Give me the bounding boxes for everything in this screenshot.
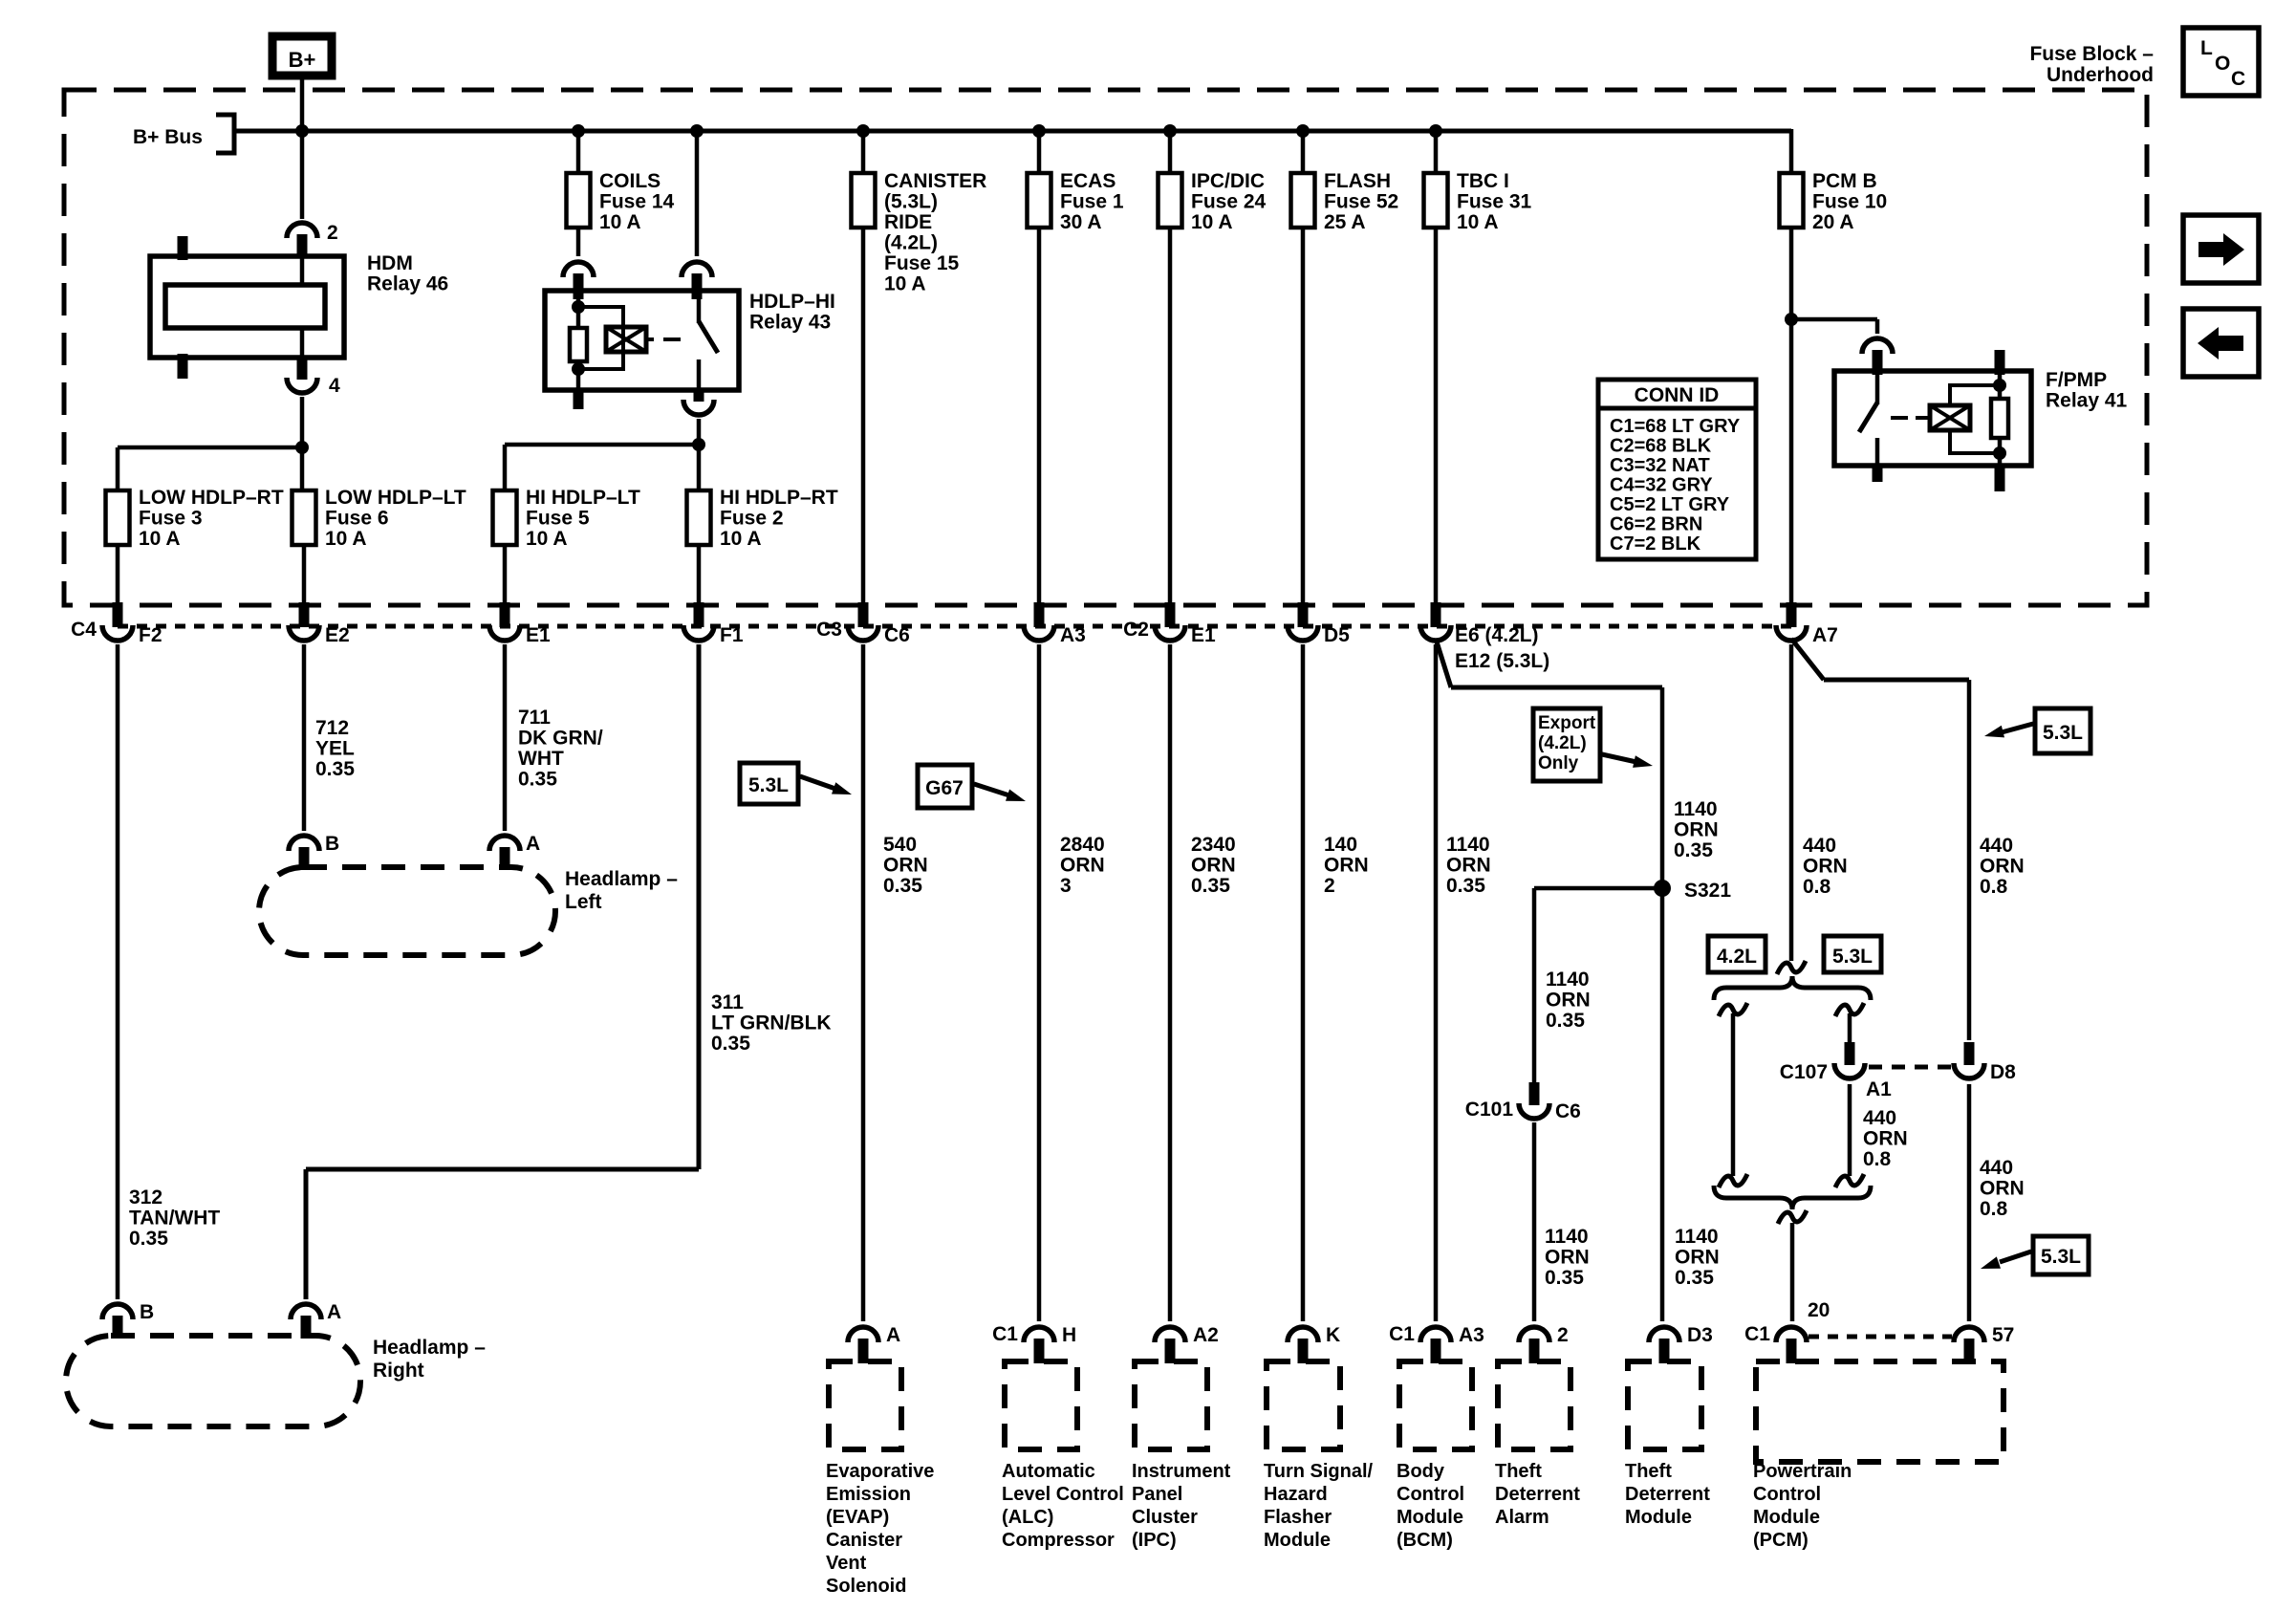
svg-text:ORN: ORN bbox=[1863, 1128, 1908, 1150]
svg-text:C3: C3 bbox=[816, 619, 842, 641]
svg-text:IPC/DIC: IPC/DIC bbox=[1191, 170, 1265, 192]
connector pin 4 of HDM relay bbox=[287, 375, 340, 397]
svg-text:(4.2L): (4.2L) bbox=[884, 232, 938, 254]
svg-text:Alarm: Alarm bbox=[1495, 1507, 1549, 1528]
wire B+ down to bus bbox=[300, 79, 305, 131]
svg-text:G67: G67 bbox=[925, 777, 964, 799]
wire F2 down to headlamp right B bbox=[116, 644, 120, 1299]
fuse ECAS bbox=[1028, 170, 1124, 233]
connector pin switch of HDLP-HI relay bbox=[682, 262, 712, 299]
svg-text:WHT: WHT bbox=[518, 748, 564, 770]
module connector at x=1741 bbox=[1649, 1324, 1713, 1363]
svg-text:10 A: 10 A bbox=[139, 528, 181, 550]
wire fuse2 to connector F1 bbox=[697, 545, 702, 604]
svg-text:Left: Left bbox=[565, 891, 602, 913]
module box Theft Deterrent Module bbox=[1628, 1361, 1701, 1449]
svg-text:PCM B: PCM B bbox=[1812, 170, 1877, 192]
svg-text:Canister: Canister bbox=[826, 1530, 902, 1551]
svg-text:A7: A7 bbox=[1812, 624, 1838, 646]
svg-text:Level Control: Level Control bbox=[1002, 1484, 1124, 1505]
svg-text:ECAS: ECAS bbox=[1060, 170, 1116, 192]
module box Evaporative Emission (EVAP) Canister Vent Solenoid bbox=[829, 1361, 901, 1449]
svg-text:C2: C2 bbox=[1123, 619, 1149, 641]
svg-text:A: A bbox=[327, 1301, 341, 1323]
svg-text:0.35: 0.35 bbox=[1674, 839, 1713, 861]
wire ECAS fuse down to connector row bbox=[1037, 226, 1042, 604]
svg-text:E1: E1 bbox=[526, 624, 551, 646]
module connector at x=1502 bbox=[1389, 1323, 1484, 1363]
svg-text:RIDE: RIDE bbox=[884, 211, 932, 233]
svg-text:440: 440 bbox=[1803, 835, 1836, 857]
svg-text:Vent: Vent bbox=[826, 1553, 867, 1574]
wire fuse5 to connector E1 bbox=[503, 545, 508, 604]
svg-text:57: 57 bbox=[1992, 1324, 2014, 1346]
wire F1 down and jog left (311 LT GRN/BLK) bbox=[697, 644, 702, 1169]
wire fuse3 to connector C4 F2 bbox=[116, 545, 120, 604]
svg-text:E1: E1 bbox=[1191, 624, 1216, 646]
svg-text:F/PMP: F/PMP bbox=[2046, 369, 2107, 391]
svg-text:Turn Signal/: Turn Signal/ bbox=[1264, 1461, 1374, 1482]
svg-text:ORN: ORN bbox=[1980, 856, 2025, 878]
wire branch to LOW HDLP-RT fuse bbox=[118, 446, 302, 450]
svg-text:LOW HDLP–LT: LOW HDLP–LT bbox=[325, 487, 466, 509]
module connector at x=1363 bbox=[1288, 1324, 1340, 1363]
fuse block underhood dashed border bbox=[64, 90, 2147, 605]
connector row pin at x=903 bbox=[816, 602, 910, 646]
connector row pin at x=123 bbox=[71, 602, 162, 646]
connector of HDLP-HI relay output bbox=[683, 400, 714, 415]
wire E2 down to headlamp left B bbox=[302, 644, 307, 831]
wire A3 down to ALC compressor bbox=[1037, 644, 1042, 1321]
svg-text:2: 2 bbox=[1557, 1324, 1569, 1346]
svg-text:4.2L: 4.2L bbox=[1717, 946, 1757, 968]
wire to PCM pin 20 bbox=[1790, 1223, 1795, 1321]
wire D5 down to flasher module bbox=[1301, 644, 1306, 1321]
5.3L tag bottom right bbox=[2033, 1236, 2089, 1274]
wire COILS fuse to relay coil pin bbox=[576, 226, 581, 256]
svg-text:B: B bbox=[325, 833, 339, 855]
svg-text:A: A bbox=[886, 1324, 900, 1346]
svg-text:140: 140 bbox=[1324, 834, 1357, 856]
dashed link C107 to D8 bbox=[1869, 1065, 1952, 1070]
brace top bbox=[1714, 976, 1871, 1000]
svg-text:2: 2 bbox=[1324, 875, 1335, 897]
svg-text:ORN: ORN bbox=[1980, 1178, 2025, 1200]
svg-text:10 A: 10 A bbox=[884, 273, 926, 295]
wire bus to CANISTER fuse bbox=[861, 131, 866, 173]
svg-text:Instrument: Instrument bbox=[1132, 1461, 1231, 1482]
wire A7 down (440 ORN 0.8) bbox=[1789, 644, 1794, 961]
connector row pin at x=1874 bbox=[1776, 602, 1838, 646]
svg-text:C6: C6 bbox=[884, 624, 910, 646]
svg-text:ORN: ORN bbox=[883, 855, 928, 877]
svg-text:1140: 1140 bbox=[1446, 834, 1490, 856]
svg-text:(EVAP): (EVAP) bbox=[826, 1507, 889, 1528]
svg-text:0.35: 0.35 bbox=[883, 875, 922, 897]
wire HDM pin4 down to split bbox=[300, 397, 305, 490]
svg-text:D5: D5 bbox=[1324, 624, 1350, 646]
svg-text:Powertrain: Powertrain bbox=[1753, 1461, 1852, 1482]
wire C6 down to EVAP solenoid bbox=[861, 644, 866, 1321]
svg-text:312: 312 bbox=[129, 1186, 162, 1208]
svg-text:Fuse 24: Fuse 24 bbox=[1191, 191, 1267, 213]
svg-text:K: K bbox=[1326, 1324, 1340, 1346]
svg-text:ORN: ORN bbox=[1675, 1247, 1720, 1269]
svg-text:20: 20 bbox=[1808, 1299, 1830, 1321]
svg-text:ORN: ORN bbox=[1674, 819, 1719, 841]
svg-text:10 A: 10 A bbox=[325, 528, 367, 550]
connector pin switch of F/PMP relay bbox=[1862, 338, 1893, 375]
svg-text:Evaporative: Evaporative bbox=[826, 1461, 934, 1482]
svg-text:A3: A3 bbox=[1459, 1324, 1484, 1346]
svg-text:ORN: ORN bbox=[1060, 855, 1105, 877]
svg-text:HDM: HDM bbox=[367, 252, 413, 274]
svg-text:C5=2 LT GRY: C5=2 LT GRY bbox=[1610, 494, 1730, 515]
svg-text:Relay 43: Relay 43 bbox=[749, 312, 831, 334]
F/PMP Relay 41 bbox=[1834, 350, 2128, 491]
svg-text:C6: C6 bbox=[1555, 1100, 1581, 1122]
svg-text:10 A: 10 A bbox=[599, 211, 641, 233]
connector B headlamp left bbox=[289, 833, 339, 870]
HDM Relay 46 bbox=[150, 236, 448, 380]
connector pin coil of HDLP-HI relay bbox=[563, 262, 594, 299]
B+ bus horizontal wire bbox=[233, 129, 1791, 134]
svg-text:ORN: ORN bbox=[1545, 1247, 1590, 1269]
svg-text:F1: F1 bbox=[720, 624, 744, 646]
4.2L tag bbox=[1708, 936, 1765, 972]
svg-text:C3=32 NAT: C3=32 NAT bbox=[1610, 455, 1710, 476]
5.3L arrow to 440 wire bbox=[2002, 724, 2033, 732]
svg-text:Module: Module bbox=[1264, 1530, 1331, 1551]
svg-text:CANISTER: CANISTER bbox=[884, 170, 986, 192]
module connector at x=1224 bbox=[1155, 1324, 1219, 1363]
svg-text:D8: D8 bbox=[1990, 1061, 2016, 1083]
svg-text:440: 440 bbox=[1863, 1107, 1896, 1129]
svg-text:Fuse 15: Fuse 15 bbox=[884, 252, 960, 274]
svg-text:2: 2 bbox=[327, 222, 338, 244]
svg-text:Module: Module bbox=[1397, 1507, 1463, 1528]
svg-text:0.35: 0.35 bbox=[1675, 1267, 1714, 1289]
svg-text:1140: 1140 bbox=[1546, 969, 1590, 991]
svg-text:F2: F2 bbox=[139, 624, 162, 646]
fuse FLASH bbox=[1291, 170, 1399, 233]
svg-text:E2: E2 bbox=[325, 624, 350, 646]
svg-text:0.35: 0.35 bbox=[1191, 875, 1230, 897]
wire S321 branch left to C101 bbox=[1534, 886, 1662, 891]
B+ terminal bbox=[272, 36, 332, 76]
wire D8 down to PCM pin 57 bbox=[1967, 1084, 1972, 1321]
fuse HI HDLP-RT Fuse 2 10A bbox=[687, 487, 838, 550]
G67 arrow to 2840 wire bbox=[974, 784, 1009, 795]
svg-text:HDLP–HI: HDLP–HI bbox=[749, 291, 835, 313]
connector D8 bbox=[1954, 1042, 2016, 1083]
module box Body Control Module (BCM) bbox=[1399, 1361, 1472, 1449]
wire bus corner down to PCM B fuse bbox=[1789, 129, 1794, 173]
svg-text:Control: Control bbox=[1397, 1484, 1464, 1505]
5.3L tag bbox=[1824, 936, 1881, 972]
fuse TBC I bbox=[1424, 170, 1532, 233]
svg-text:0.8: 0.8 bbox=[1980, 876, 2008, 898]
svg-text:COILS: COILS bbox=[599, 170, 661, 192]
module connector at x=1874 bbox=[1744, 1299, 1830, 1363]
svg-text:Fuse 2: Fuse 2 bbox=[720, 508, 784, 530]
svg-text:10 A: 10 A bbox=[1457, 211, 1499, 233]
svg-text:ORN: ORN bbox=[1546, 990, 1591, 1012]
svg-text:B+: B+ bbox=[289, 48, 316, 72]
svg-text:Fuse 1: Fuse 1 bbox=[1060, 191, 1124, 213]
svg-text:440: 440 bbox=[1980, 1157, 2013, 1179]
connector row pin at x=1502 bbox=[1420, 602, 1451, 641]
svg-text:Module: Module bbox=[1625, 1507, 1692, 1528]
svg-text:2340: 2340 bbox=[1191, 834, 1236, 856]
wire bus to TBC I fuse bbox=[1434, 131, 1439, 173]
svg-text:Compressor: Compressor bbox=[1002, 1530, 1115, 1551]
fuse LOW HDLP-LT Fuse 6 10A bbox=[292, 487, 466, 550]
svg-text:H: H bbox=[1062, 1324, 1076, 1346]
svg-text:712: 712 bbox=[315, 717, 349, 739]
svg-text:Solenoid: Solenoid bbox=[826, 1576, 906, 1597]
svg-text:A3: A3 bbox=[1060, 624, 1086, 646]
connector C101 C6 bbox=[1465, 1082, 1581, 1122]
5.3L tag left bbox=[740, 763, 798, 804]
svg-text:LOW HDLP–RT: LOW HDLP–RT bbox=[139, 487, 284, 509]
dotted link pin20 to pin57 bbox=[1809, 1335, 1952, 1339]
4.2L option wire bbox=[1719, 1003, 1747, 1016]
svg-text:Fuse 5: Fuse 5 bbox=[526, 508, 590, 530]
svg-text:4: 4 bbox=[329, 375, 340, 397]
arrow box pointing left bbox=[2183, 309, 2259, 377]
connector B headlamp right bbox=[102, 1301, 154, 1339]
svg-text:Relay 41: Relay 41 bbox=[2046, 390, 2128, 412]
fuse CANISTER bbox=[852, 170, 987, 295]
svg-text:0.35: 0.35 bbox=[1446, 875, 1485, 897]
module box Automatic Level Control (ALC) Compressor bbox=[1005, 1361, 1077, 1449]
bus junction nodes bbox=[295, 124, 309, 138]
wire branch to F/PMP relay bbox=[1791, 317, 1877, 322]
wire IPC/DIC fuse down to connector row bbox=[1168, 226, 1173, 604]
svg-text:5.3L: 5.3L bbox=[2043, 722, 2083, 744]
svg-text:(IPC): (IPC) bbox=[1132, 1530, 1177, 1551]
svg-text:Body: Body bbox=[1397, 1461, 1445, 1482]
svg-text:TAN/WHT: TAN/WHT bbox=[129, 1208, 220, 1230]
svg-text:30 A: 30 A bbox=[1060, 211, 1102, 233]
wire CANISTER fuse down to connector row bbox=[861, 226, 866, 604]
connector row pin at x=528 bbox=[489, 602, 551, 646]
Export arrow bbox=[1602, 754, 1636, 762]
svg-text:0.35: 0.35 bbox=[129, 1228, 168, 1250]
svg-text:0.35: 0.35 bbox=[1545, 1267, 1584, 1289]
svg-text:TBC I: TBC I bbox=[1457, 170, 1509, 192]
svg-text:0.35: 0.35 bbox=[1546, 1010, 1585, 1032]
svg-text:Theft: Theft bbox=[1495, 1461, 1542, 1482]
G67 tag bbox=[918, 765, 972, 808]
wire TBC I fuse down to connector row bbox=[1434, 226, 1439, 604]
wire fuse6 to connector E2 bbox=[302, 545, 307, 604]
svg-text:Export: Export bbox=[1538, 713, 1596, 733]
svg-text:Underhood: Underhood bbox=[2047, 64, 2154, 86]
Headlamp Left box bbox=[259, 867, 678, 955]
svg-text:(ALC): (ALC) bbox=[1002, 1507, 1053, 1528]
svg-text:O: O bbox=[2215, 53, 2230, 75]
module connector at x=1605 bbox=[1519, 1324, 1569, 1363]
svg-text:10 A: 10 A bbox=[720, 528, 762, 550]
wire branch to HI HDLP-LT fuse bbox=[505, 443, 699, 447]
svg-text:B+ Bus: B+ Bus bbox=[133, 126, 203, 148]
fuse LOW HDLP-RT Fuse 3 10A bbox=[106, 487, 284, 550]
svg-text:Deterrent: Deterrent bbox=[1495, 1484, 1580, 1505]
svg-text:ORN: ORN bbox=[1191, 855, 1236, 877]
connector pin 2 of HDM relay bbox=[287, 222, 338, 258]
module connector at x=2060 bbox=[1954, 1324, 2014, 1363]
svg-text:5.3L: 5.3L bbox=[1832, 946, 1873, 968]
svg-text:CONN ID: CONN ID bbox=[1635, 384, 1720, 406]
svg-text:C101: C101 bbox=[1465, 1099, 1514, 1121]
wire bus to ECAS fuse bbox=[1037, 131, 1042, 173]
svg-text:5.3L: 5.3L bbox=[748, 774, 789, 796]
svg-text:S321: S321 bbox=[1684, 880, 1731, 902]
svg-text:10 A: 10 A bbox=[1191, 211, 1233, 233]
wire C101 down to theft deterrent alarm bbox=[1532, 1122, 1537, 1321]
svg-text:Fuse 52: Fuse 52 bbox=[1324, 191, 1398, 213]
5.3L option wire upper bbox=[1835, 1003, 1864, 1016]
LOC legend box bbox=[2183, 28, 2259, 96]
svg-text:Module: Module bbox=[1753, 1507, 1820, 1528]
module box Theft Deterrent Alarm bbox=[1498, 1361, 1570, 1449]
svg-text:25 A: 25 A bbox=[1324, 211, 1366, 233]
svg-text:540: 540 bbox=[883, 834, 917, 856]
wire E6/E12 diagonal branch bbox=[1436, 639, 1451, 687]
connector row pin at x=1087 bbox=[1024, 602, 1086, 646]
B+ Bus bracket and label bbox=[216, 115, 234, 153]
svg-text:C4=32 GRY: C4=32 GRY bbox=[1610, 475, 1713, 496]
svg-text:HI HDLP–LT: HI HDLP–LT bbox=[526, 487, 640, 509]
wire E1 down to headlamp left A bbox=[503, 644, 508, 831]
svg-text:1140: 1140 bbox=[1675, 1226, 1719, 1248]
fuse COILS Fuse 14 10A bbox=[567, 170, 675, 233]
svg-text:1140: 1140 bbox=[1674, 798, 1718, 820]
svg-text:Fuse 3: Fuse 3 bbox=[139, 508, 203, 530]
wire bus to IPC/DIC fuse bbox=[1168, 131, 1173, 173]
svg-text:ORN: ORN bbox=[1324, 855, 1369, 877]
svg-text:Panel: Panel bbox=[1132, 1484, 1182, 1505]
svg-text:C4: C4 bbox=[71, 619, 97, 641]
svg-text:Right: Right bbox=[373, 1360, 424, 1382]
5.3L arrow to 540 wire bbox=[800, 776, 835, 789]
svg-text:(4.2L): (4.2L) bbox=[1538, 733, 1587, 753]
svg-text:10 A: 10 A bbox=[526, 528, 568, 550]
break below brace bbox=[1778, 1210, 1807, 1224]
svg-text:C: C bbox=[2231, 68, 2245, 90]
svg-text:Fuse 14: Fuse 14 bbox=[599, 191, 675, 213]
svg-text:Headlamp –: Headlamp – bbox=[565, 868, 678, 890]
svg-text:C7=2 BLK: C7=2 BLK bbox=[1610, 533, 1701, 555]
svg-text:(5.3L): (5.3L) bbox=[884, 191, 938, 213]
fuse HI HDLP-LT Fuse 5 10A bbox=[493, 487, 640, 550]
svg-text:0.8: 0.8 bbox=[1980, 1198, 2008, 1220]
svg-text:0.8: 0.8 bbox=[1863, 1148, 1892, 1170]
HDLP-HI Relay 43 bbox=[545, 291, 835, 409]
svg-text:C1: C1 bbox=[992, 1323, 1018, 1345]
svg-text:Control: Control bbox=[1753, 1484, 1821, 1505]
brace bottom bbox=[1714, 1186, 1871, 1209]
svg-text:A1: A1 bbox=[1866, 1078, 1892, 1100]
svg-text:Fuse Block –: Fuse Block – bbox=[2029, 43, 2154, 65]
module box Powertrain Control Module (PCM) bbox=[1756, 1361, 2004, 1462]
svg-text:DK GRN/: DK GRN/ bbox=[518, 728, 603, 750]
5.3L option wire lower bbox=[1848, 1084, 1852, 1176]
module connector at x=1087 bbox=[992, 1323, 1076, 1363]
svg-text:Flasher: Flasher bbox=[1264, 1507, 1332, 1528]
5.3L tag top right bbox=[2035, 708, 2090, 753]
svg-text:E6 (4.2L): E6 (4.2L) bbox=[1455, 624, 1539, 646]
svg-text:Fuse 31: Fuse 31 bbox=[1457, 191, 1532, 213]
engine option break on A7 wire bbox=[1777, 961, 1806, 974]
svg-text:A2: A2 bbox=[1193, 1324, 1219, 1346]
svg-text:311: 311 bbox=[711, 991, 744, 1013]
connector row pin at x=318 bbox=[289, 602, 350, 646]
svg-text:Automatic: Automatic bbox=[1002, 1461, 1095, 1482]
svg-text:Fuse 6: Fuse 6 bbox=[325, 508, 389, 530]
svg-text:Cluster: Cluster bbox=[1132, 1507, 1198, 1528]
svg-text:Relay 46: Relay 46 bbox=[367, 273, 448, 295]
svg-text:711: 711 bbox=[518, 707, 551, 729]
svg-text:Emission: Emission bbox=[826, 1484, 911, 1505]
svg-text:5.3L: 5.3L bbox=[2041, 1246, 2081, 1268]
5.3L arrow to 440 wire bottom bbox=[2000, 1252, 2031, 1262]
connector row pin at x=731 bbox=[683, 602, 744, 646]
connector row pin at x=1224 bbox=[1123, 602, 1216, 646]
svg-text:3: 3 bbox=[1060, 875, 1072, 897]
svg-text:C1: C1 bbox=[1389, 1323, 1415, 1345]
svg-text:C6=2 BRN: C6=2 BRN bbox=[1610, 514, 1702, 535]
connector row pin at x=1363 bbox=[1288, 602, 1350, 646]
wire bus to FLASH fuse bbox=[1301, 131, 1306, 173]
svg-text:0.35: 0.35 bbox=[518, 769, 557, 791]
svg-text:Hazard: Hazard bbox=[1264, 1484, 1328, 1505]
svg-text:A: A bbox=[526, 833, 540, 855]
svg-text:20 A: 20 A bbox=[1812, 211, 1854, 233]
svg-text:Only: Only bbox=[1538, 753, 1579, 773]
svg-text:Deterrent: Deterrent bbox=[1625, 1484, 1710, 1505]
svg-text:HI HDLP–RT: HI HDLP–RT bbox=[720, 487, 838, 509]
fuse IPC/DIC bbox=[1159, 170, 1267, 233]
svg-text:FLASH: FLASH bbox=[1324, 170, 1391, 192]
connector C107 A1 bbox=[1780, 1042, 1892, 1100]
svg-text:ORN: ORN bbox=[1446, 855, 1491, 877]
wire relay43 output down to split bbox=[697, 419, 702, 490]
svg-text:E12 (5.3L): E12 (5.3L) bbox=[1455, 650, 1549, 672]
wire FLASH fuse down to connector row bbox=[1301, 226, 1306, 604]
svg-text:1140: 1140 bbox=[1545, 1226, 1589, 1248]
wire E1 down to IPC bbox=[1168, 644, 1173, 1321]
Headlamp Right box bbox=[66, 1336, 486, 1426]
svg-text:Theft: Theft bbox=[1625, 1461, 1672, 1482]
arrow box pointing right bbox=[2183, 215, 2259, 283]
CONN ID table bbox=[1598, 380, 1756, 559]
connector A headlamp right bbox=[291, 1301, 341, 1339]
svg-text:B: B bbox=[140, 1301, 154, 1323]
connector strip dotted line bbox=[118, 624, 1791, 629]
svg-text:0.8: 0.8 bbox=[1803, 876, 1831, 898]
svg-text:C1=68 LT GRY: C1=68 LT GRY bbox=[1610, 416, 1741, 437]
svg-text:L: L bbox=[2200, 37, 2213, 59]
svg-text:440: 440 bbox=[1980, 835, 2013, 857]
module connector at x=903 bbox=[848, 1324, 900, 1363]
module box Turn Signal/ Hazard Flasher Module bbox=[1267, 1361, 1340, 1449]
svg-text:(BCM): (BCM) bbox=[1397, 1530, 1453, 1551]
svg-text:C107: C107 bbox=[1780, 1061, 1828, 1083]
Export (4.2L) Only tag bbox=[1533, 708, 1600, 781]
